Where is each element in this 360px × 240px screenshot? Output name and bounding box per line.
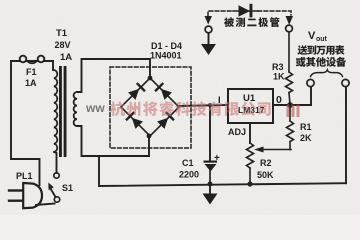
wire U1 output xyxy=(273,104,311,106)
label R2 50K xyxy=(257,158,274,180)
wire right edge up to Vout terminal xyxy=(345,87,347,183)
plug PL1 xyxy=(9,183,42,208)
test terminal right arrow xyxy=(286,16,294,25)
pin O label xyxy=(276,94,282,106)
bridge diamond wires xyxy=(121,78,179,136)
wire switch to primary xyxy=(55,152,57,173)
diode under test symbol xyxy=(233,4,258,18)
node C1 top junction xyxy=(208,103,212,107)
brace under label xyxy=(311,70,343,77)
bridge dashed box xyxy=(110,67,191,148)
diode under test dashed loop xyxy=(208,11,291,16)
label R1 2K xyxy=(300,122,312,143)
wire down to ground rail xyxy=(99,156,346,186)
wire C1 top lead xyxy=(209,105,211,161)
Vout right terminal xyxy=(342,79,349,86)
test terminal right circle xyxy=(286,25,293,32)
label D1 - D4 1N4001 xyxy=(150,41,182,61)
paper grain xyxy=(0,0,1,1)
diode D4 bottom-right xyxy=(157,113,173,129)
label C1 2200 + xyxy=(179,153,220,180)
label PL1 xyxy=(16,171,33,181)
test terminal left arrow xyxy=(205,16,213,25)
label 送到万用表 xyxy=(297,45,344,55)
label R3 1K xyxy=(272,62,285,82)
wire fuse top edge xyxy=(11,60,53,62)
capacitor C1 xyxy=(204,161,218,185)
ground below C1 xyxy=(203,186,218,205)
transformer T1 primary winding xyxy=(54,70,57,152)
diode D3 bottom-left xyxy=(127,113,143,129)
node R2 rail junction xyxy=(247,181,252,186)
potentiometer R2 xyxy=(247,143,292,184)
wire plug to switch xyxy=(36,204,55,206)
wire fuse to primary xyxy=(52,61,54,70)
transformer T1 core xyxy=(59,66,67,157)
watermark 杭州将睿科技有限公司 xyxy=(85,101,300,117)
resistor R3 xyxy=(286,32,293,105)
ground left test terminal xyxy=(201,44,216,55)
node output junction xyxy=(287,102,293,108)
label 或其他设备 xyxy=(296,57,346,67)
label 被测二极管 xyxy=(224,17,279,27)
label U1 LM317 xyxy=(238,93,265,115)
wire bridge bottom lead xyxy=(148,136,150,156)
pin I label xyxy=(218,95,221,106)
wire up to Vout left terminal xyxy=(310,87,312,105)
label ADJ xyxy=(228,127,246,137)
regulator U1 LM317 box xyxy=(228,89,273,123)
wire secondary top to bridge top xyxy=(77,59,150,92)
label Vout xyxy=(308,30,328,43)
node C1 rail junction xyxy=(208,182,213,187)
node bridge bottom junction xyxy=(147,134,152,139)
label S1 xyxy=(62,183,73,193)
resistor R1 xyxy=(287,105,294,150)
wire left test terminal to ground xyxy=(208,33,210,44)
label F1 1A xyxy=(25,67,37,88)
wire left side down to plug xyxy=(11,61,40,185)
wire secondary bottom xyxy=(77,126,149,156)
label T1 28V 1A xyxy=(55,28,73,63)
node bridge top junction xyxy=(148,76,153,81)
switch S1 xyxy=(48,173,59,202)
wire ADJ pin xyxy=(249,123,251,143)
wire bridge output to U1 input xyxy=(179,105,228,106)
Vout left terminal xyxy=(307,79,314,86)
diode D1 top-left xyxy=(128,84,144,100)
diode D2 top-right xyxy=(156,84,172,100)
transformer T1 secondary winding xyxy=(74,92,77,126)
test terminal left circle xyxy=(205,26,212,33)
fuse F1 xyxy=(20,56,45,64)
